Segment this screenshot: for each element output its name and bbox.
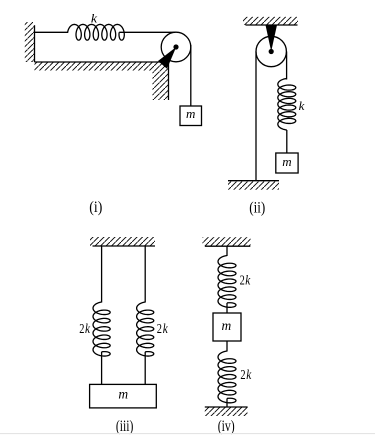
- bracket wedge (pulley mount, part i): [158, 47, 176, 69]
- svg-text:k: k: [245, 273, 251, 288]
- pulley axle dot (part ii): [269, 49, 274, 54]
- svg-text:(ii): (ii): [249, 199, 265, 216]
- string pulley-to-floor (part ii): [255, 52, 257, 181]
- string ceiling-to-spring (part iv): [226, 246, 228, 256]
- svg-text:k: k: [91, 12, 98, 26]
- floor (part iv): [205, 407, 248, 416]
- bracket wedge (pulley mount, part ii): [266, 25, 278, 52]
- wire spring-to-pulley (part i): [119, 31, 176, 33]
- wire spring-to-mass (part ii): [286, 130, 288, 153]
- wire wall-to-spring (part i): [35, 31, 69, 33]
- wall W2 (horizontal shelf, part i): [35, 62, 169, 71]
- svg-text:k: k: [85, 322, 91, 337]
- spring 2k lower (part iv): [218, 351, 236, 403]
- spring 2k right (part iii): [137, 302, 154, 356]
- separator line (bottom of page): [0, 433, 375, 434]
- floor (part ii): [228, 181, 279, 190]
- svg-text:(i): (i): [89, 199, 102, 216]
- spring 2k upper (part iv): [218, 256, 236, 308]
- wire left-spring-to-mass (part iii): [101, 352, 103, 385]
- spring k (part ii): [278, 79, 296, 130]
- string pulley-to-mass (part i): [190, 45, 192, 106]
- svg-text:(iv): (iv): [218, 418, 235, 435]
- mass m (part iii): [90, 384, 157, 408]
- pulley axle dot (part i): [173, 44, 178, 49]
- svg-text:k: k: [163, 322, 169, 337]
- svg-text:m: m: [118, 386, 128, 401]
- string ceiling-to-right-spring (part iii): [144, 246, 146, 303]
- ceiling (part iv): [203, 237, 251, 246]
- wall W3 (corner vertical wall under pulley, part i): [153, 62, 169, 100]
- wire mass-to-lower-spring (part iv): [226, 341, 228, 352]
- mass m (part ii): [276, 153, 298, 173]
- svg-text:m: m: [282, 154, 291, 169]
- ceiling (part ii): [243, 17, 298, 25]
- pulley P2 (part ii): [256, 36, 286, 66]
- mass m (part i): [180, 106, 202, 126]
- spring 2k left (part iii): [93, 302, 110, 356]
- mass m (part iv): [213, 313, 241, 341]
- svg-text:k: k: [299, 99, 305, 113]
- svg-text:2: 2: [79, 322, 84, 337]
- pulley P1 (part i): [161, 32, 191, 62]
- svg-text:(iii): (iii): [116, 418, 134, 435]
- svg-text:m: m: [186, 106, 195, 121]
- spring k (horizontal spring, part i): [68, 24, 125, 40]
- svg-text:2: 2: [157, 322, 162, 337]
- svg-text:2: 2: [240, 368, 245, 383]
- wire lower-spring-to-floor (part iv): [226, 398, 228, 407]
- ceiling (part iii): [90, 237, 155, 246]
- string pulley-to-spring (part ii): [286, 52, 288, 80]
- svg-text:m: m: [222, 318, 232, 333]
- wire right-spring-to-mass (part iii): [144, 352, 146, 385]
- wall W1 (left fixed wall, part i): [25, 22, 35, 62]
- wire spring-to-mass (part iv): [226, 303, 228, 313]
- svg-text:2: 2: [240, 273, 245, 288]
- svg-text:k: k: [246, 368, 252, 383]
- string ceiling-to-left-spring (part iii): [101, 246, 103, 303]
